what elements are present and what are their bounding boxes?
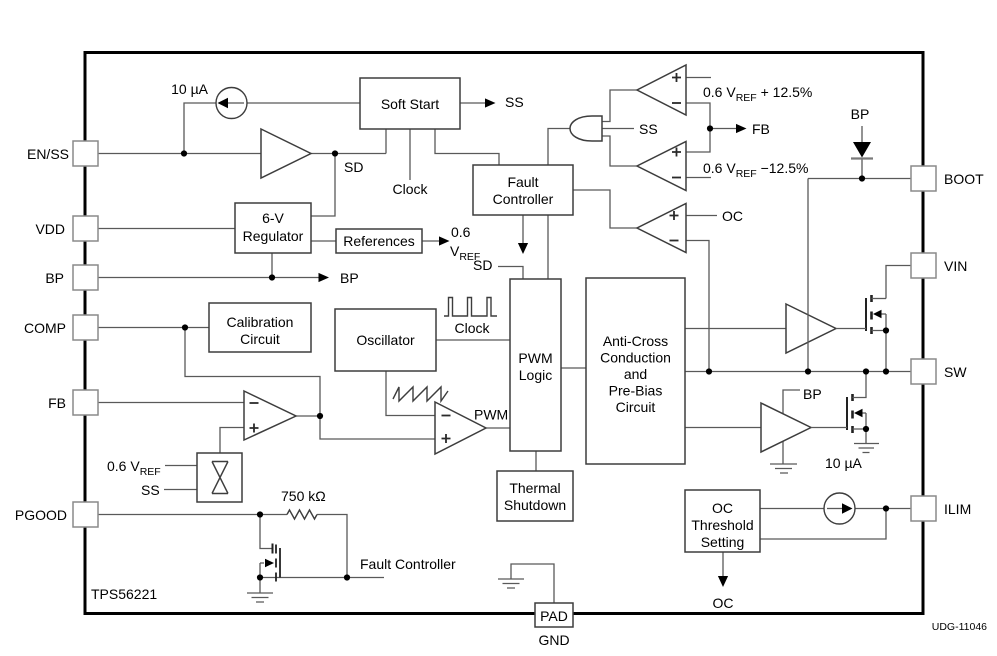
wire VDD pin to regulator [98,228,235,230]
wire SS input to limiter [164,489,197,491]
svg-text:COMP: COMP [24,320,66,336]
wire PGOOD pin to resistor [98,514,287,516]
wire FB arrow shaft [710,128,736,130]
transistor Q3 PGOOD pulldown MOSFET [260,515,280,582]
svg-text:Pre-Bias: Pre-Bias [609,383,663,399]
svg-text:SD: SD [473,257,492,273]
label comparator U4 plus [670,211,679,220]
transistor Q2 low-side MOSFET [811,372,866,444]
junction Q3 source node [257,574,263,580]
wire low-side driver ground rail [782,441,784,464]
wire buffer output SD node [311,153,386,155]
error amplifier [244,391,296,440]
PWM comparator [435,402,486,454]
resistor 750 kOhm [287,510,317,519]
arrowhead BP output [319,273,330,282]
ground at Q3 source [247,578,273,603]
ground at Q2 source [854,444,879,453]
svg-text:GND: GND [538,632,569,648]
svg-text:BP: BP [340,270,359,286]
wire OC comparator plus stub [686,215,717,217]
junction COMP node [182,324,188,330]
svg-text:SS: SS [141,482,160,498]
pin PGOOD [73,502,98,527]
block Oscillator [335,309,436,371]
comparator U3 undervoltage [637,142,686,191]
pin BP [73,265,98,290]
junction FB comparator node [707,125,713,131]
low-side gate driver [761,403,811,452]
wire OC comparator minus to SW [686,241,709,372]
junction PGOOD node [257,511,263,517]
svg-text:BP: BP [851,106,870,122]
wire OC threshold to ILIM current source [760,508,824,510]
label comparator U3 plus [672,148,681,157]
svg-text:PWM: PWM [518,350,552,366]
svg-text:Calibration: Calibration [227,314,294,330]
svg-text:OC: OC [712,500,733,516]
svg-text:Setting: Setting [701,534,745,550]
AND gate [570,116,602,141]
sawtooth ramp waveform [393,387,448,401]
wire PWM logic to thermal shutdown [535,451,537,471]
wire FB pin to error amp inverting input [98,402,244,404]
wire fault controller down arrow shaft [522,215,524,244]
junction EN/SS current source node [181,150,187,156]
svg-text:UDG-11046: UDG-11046 [932,621,987,633]
comparator U2 overvoltage [637,65,686,115]
current source 10 uA EN/SS [216,88,247,119]
svg-text:Circuit: Circuit [240,331,280,347]
diode BP to BOOT [851,126,873,179]
wire oscillator ramp output to PWM comparator [386,371,435,416]
wire comparator U3 minus stub [686,177,711,179]
junction BOOT diode node [859,175,865,181]
block Thermal Shutdown [497,471,573,521]
wire anti-cross to low-side driver [685,427,761,429]
wire comparator U2 output to AND gate top input [602,90,637,122]
svg-text:BP: BP [45,270,64,286]
block PWM Logic [510,279,561,451]
svg-text:Controller: Controller [493,191,554,207]
label error amp plus [250,424,259,433]
svg-text:750 kΩ: 750 kΩ [281,488,326,504]
wire fault controller to OC comparator [573,190,637,228]
wire oscillator clock output to PWM logic [436,339,510,341]
wire BOOT bootstrap rail through driver [807,179,809,372]
pin PAD [535,603,573,627]
wire comparator U3 output to AND gate bottom input [602,136,637,166]
wire error amp output [296,415,320,417]
ground at PAD [498,579,524,588]
wire BOOT pin net [808,178,911,180]
high-side gate driver [786,304,836,353]
wire Soft Start SS output [460,102,486,104]
wire References output arrow shaft [422,240,440,242]
svg-text:SS: SS [639,121,658,137]
arrowhead SS output [485,98,496,107]
wire AND gate output to fault controller [548,129,570,166]
clock waveform pulses [444,298,497,317]
svg-text:PGOOD: PGOOD [15,507,67,523]
wire PWM comparator output to PWM logic [486,427,510,429]
block Fault Controller [473,165,573,215]
wire 0.6 VREF input to limiter [165,465,197,467]
junction SW bootstrap rail node [805,368,811,374]
arrowhead OC output down [718,576,728,587]
transistor Q1 high-side MOSFET [836,295,886,372]
wire VIN pin to Q1 drain [886,266,911,299]
svg-text:VDD: VDD [35,221,65,237]
wire error amp noninverting input to limiter [220,428,244,454]
label comparator U3 minus [672,177,681,179]
wire Q3 drain to Fault Controller label [260,577,384,579]
block Anti-Cross Conduction and Pre-Bias Circuit [586,278,685,464]
pin EN/SS [73,141,98,166]
svg-text:PAD: PAD [540,608,568,624]
block limiter with clamp symbol [197,453,242,502]
pin VDD [73,216,98,241]
svg-text:Soft Start: Soft Start [381,96,439,112]
svg-text:BP: BP [803,386,822,402]
junction SW OC sense node [706,368,712,374]
arrowhead fault controller down [518,243,528,254]
junction BP node [269,274,275,280]
pin BOOT [911,166,936,191]
svg-text:Circuit: Circuit [616,399,656,415]
svg-text:FB: FB [48,395,66,411]
wire EN/SS node to current source [184,103,216,154]
svg-text:EN/SS: EN/SS [27,146,69,162]
svg-text:6-V: 6-V [262,210,284,226]
svg-text:10 µA: 10 µA [171,81,209,97]
junction SD node [332,150,338,156]
block References [336,229,422,253]
wire Soft Start pin3 to Fault Controller [435,129,499,166]
IC boundary border [85,53,923,614]
svg-text:10 µA: 10 µA [825,455,863,471]
arrowhead References 0.6 VREF output [439,236,450,245]
junction SW Q1 source node [883,368,889,374]
svg-text:Clock: Clock [392,181,428,197]
block OC Threshold Setting [685,490,760,552]
wire PWM logic to anti-cross circuit [561,367,586,369]
wire Soft Start pin2 Clock [409,129,411,181]
block Soft Start [360,78,460,129]
junction fault controller node [344,574,350,580]
svg-text:TPS56221: TPS56221 [91,586,157,602]
wire COMP node down to error amp output and PWM comparator [185,328,435,440]
pin SW [911,359,936,384]
wire ILIM current source to ILIM pin [855,508,911,510]
svg-text:0.6: 0.6 [451,224,471,240]
svg-text:SD: SD [344,159,363,175]
pin FB [73,390,98,415]
svg-text:Clock: Clock [454,320,490,336]
svg-text:OC: OC [722,208,743,224]
pin VIN [911,253,936,278]
svg-text:Shutdown: Shutdown [504,497,566,513]
label comparator U2 plus [672,73,681,82]
ground at low-side driver [770,464,797,473]
wire PAD to internal ground [511,564,554,603]
wire BP pin to regulator bottom [98,253,319,278]
junction error amp output node [317,413,323,419]
wire comparator U2 plus stub [686,77,711,79]
svg-text:Thermal: Thermal [509,480,560,496]
wire EN/SS pin to buffer input [98,153,261,155]
wire fault controller to PWM logic [547,215,549,279]
svg-text:FB: FB [752,121,770,137]
svg-text:Oscillator: Oscillator [356,332,415,348]
label comparator U4 minus [670,240,679,242]
junction SW Q2 drain node [863,368,869,374]
junction ILIM node [883,505,889,511]
wire Soft Start pin1 [385,129,387,154]
svg-text:OC: OC [713,595,734,611]
buffer amplifier EN/SS [261,129,311,178]
svg-text:SW: SW [944,364,967,380]
wire SW net [685,371,911,373]
label comparator U2 minus [672,102,681,104]
junction Q1 source body node [883,327,889,333]
svg-text:PWM: PWM [474,407,508,423]
svg-text:References: References [343,233,415,249]
wire current source to Soft Start [247,102,360,104]
wire OC threshold down arrow shaft [722,552,724,577]
wire regulator to References [311,240,336,242]
wire anti-cross to high-side driver [685,328,786,330]
label error amp minus [250,402,259,404]
wire FB node to comparator inputs [686,103,710,152]
wire COMP pin to Calibration Circuit [98,327,209,329]
label PWM comparator minus [442,415,451,417]
svg-text:Regulator: Regulator [243,228,304,244]
svg-text:and: and [624,366,647,382]
block Calibration Circuit [209,303,311,352]
wire OC threshold second output to ILIM node [760,509,886,540]
wire SS input to AND gate [602,128,634,130]
wire BP bracket at low-side driver [783,390,800,414]
svg-text:ILIM: ILIM [944,501,971,517]
pin COMP [73,315,98,340]
arrowhead FB output [736,124,747,133]
wire resistor to fault controller node [317,515,347,578]
svg-text:Fault: Fault [507,174,538,190]
svg-text:Logic: Logic [519,367,552,383]
junction Q2 source body node [863,426,869,432]
wire SD node to 6-V Regulator [311,154,335,217]
pin ILIM [911,496,936,521]
current source ILIM [824,493,855,524]
svg-text:SS: SS [505,94,524,110]
block 6-V Regulator [235,203,311,253]
wire SD input to PWM logic [498,267,523,280]
comparator U4 overcurrent [637,204,686,253]
svg-text:VIN: VIN [944,258,967,274]
svg-text:Fault Controller: Fault Controller [360,556,456,572]
svg-text:Conduction: Conduction [600,350,671,366]
label PWM comparator plus [442,434,451,443]
svg-text:Threshold: Threshold [691,517,753,533]
svg-text:Anti-Cross: Anti-Cross [603,333,668,349]
svg-text:BOOT: BOOT [944,171,984,187]
